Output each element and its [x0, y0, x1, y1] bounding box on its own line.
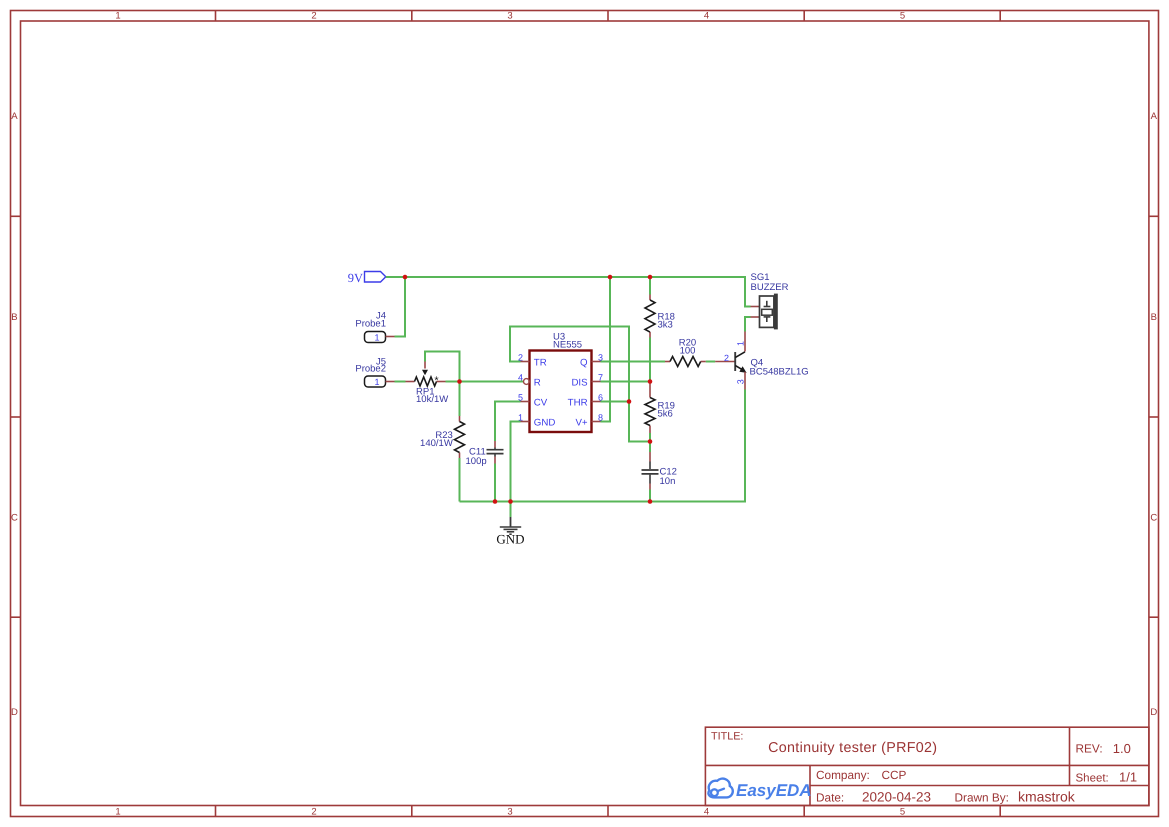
- ground symbol GND: [496, 502, 524, 547]
- wire node to pin4 R: [460, 381, 524, 383]
- resistor R23 140/1W: [420, 416, 464, 458]
- svg-text:D: D: [11, 707, 18, 718]
- wire R19 bottom: [649, 433, 651, 442]
- wire pin1 GND to gnd rail: [511, 422, 521, 502]
- wire pin7 DIS to node: [601, 381, 651, 383]
- svg-text:CV: CV: [534, 397, 548, 408]
- pin 7 DIS: [571, 373, 603, 389]
- svg-text:Company:: Company:: [816, 768, 870, 782]
- svg-text:BC548BZL1G: BC548BZL1G: [750, 366, 809, 377]
- svg-text:3: 3: [507, 807, 512, 818]
- pin 2 TR: [518, 353, 547, 369]
- svg-text:Drawn By:: Drawn By:: [955, 790, 1009, 804]
- potentiometer RP1 10k/1W: [406, 362, 449, 405]
- svg-text:3: 3: [735, 379, 745, 384]
- svg-text:C: C: [1150, 513, 1157, 524]
- svg-text:10k/1W: 10k/1W: [416, 394, 448, 405]
- svg-text:REV:: REV:: [1076, 742, 1103, 756]
- svg-text:3: 3: [507, 11, 512, 22]
- svg-text:5: 5: [900, 11, 905, 22]
- svg-text:EasyEDA: EasyEDA: [736, 781, 812, 800]
- svg-text:C: C: [11, 513, 18, 524]
- svg-text:1: 1: [374, 332, 379, 342]
- svg-text:TITLE:: TITLE:: [711, 731, 743, 743]
- net flag 9V: [348, 271, 386, 285]
- svg-text:B: B: [1151, 312, 1157, 323]
- capacitor C11 100p: [466, 441, 504, 467]
- svg-text:TR: TR: [534, 357, 547, 368]
- wire R23 bottom to gnd rail: [459, 458, 461, 502]
- svg-text:1: 1: [374, 377, 379, 387]
- svg-text:1: 1: [115, 11, 120, 22]
- svg-text:2: 2: [311, 807, 316, 818]
- pin 1 GND: [518, 413, 555, 429]
- svg-text:3: 3: [598, 353, 603, 363]
- wire pin3 Q to R20: [601, 361, 666, 363]
- wire 9V rail top: [386, 277, 751, 307]
- svg-text:NE555: NE555: [553, 340, 582, 351]
- svg-text:B: B: [11, 312, 17, 323]
- svg-text:10n: 10n: [660, 476, 676, 487]
- connector J4 Probe1: [355, 311, 394, 343]
- op-amp U3 NE555: [530, 331, 592, 432]
- resistor R18 3k3: [645, 295, 675, 338]
- svg-text:8: 8: [598, 413, 603, 423]
- buzzer SG1: [751, 272, 789, 329]
- svg-text:GND: GND: [534, 417, 556, 428]
- capacitor C12 10n: [642, 452, 677, 490]
- svg-text:1: 1: [115, 807, 120, 818]
- svg-text:Date:: Date:: [816, 790, 844, 804]
- wire 9V rail to R18: [649, 277, 651, 295]
- svg-text:1: 1: [518, 413, 523, 423]
- svg-text:DIS: DIS: [571, 377, 588, 388]
- svg-text:4: 4: [518, 373, 523, 383]
- svg-text:7: 7: [598, 373, 603, 383]
- pin 4 R: [518, 373, 541, 389]
- svg-text:Probe1: Probe1: [355, 319, 386, 330]
- svg-text:5: 5: [518, 393, 523, 403]
- svg-text:Probe2: Probe2: [355, 364, 386, 375]
- svg-text:2020-04-23: 2020-04-23: [862, 790, 931, 805]
- svg-text:Continuity tester (PRF02): Continuity tester (PRF02): [768, 740, 937, 756]
- resistor R20 100: [665, 337, 706, 366]
- svg-text:3k3: 3k3: [658, 320, 673, 331]
- wire C12 bottom to gnd rail: [649, 490, 651, 502]
- transistor Q4 BC548BZL1G: [715, 332, 808, 390]
- wire R18 bottom to DIS node: [649, 338, 651, 382]
- svg-text:9V: 9V: [348, 271, 363, 285]
- svg-text:D: D: [1150, 707, 1157, 718]
- svg-text:4: 4: [704, 807, 709, 818]
- svg-text:140/1W: 140/1W: [420, 438, 453, 449]
- svg-text:R: R: [534, 377, 541, 388]
- wire pin5 CV to C11: [495, 402, 521, 442]
- wire node to C12: [649, 442, 651, 453]
- svg-text:Q: Q: [580, 357, 588, 368]
- pin 5 CV: [518, 393, 548, 409]
- wire pin8 V+ to 9V rail: [601, 277, 611, 422]
- pin 8 V+: [575, 413, 603, 429]
- wire RP1 right to node: [446, 381, 460, 383]
- pin 6 THR: [568, 393, 603, 409]
- wire node down to R23: [459, 382, 461, 417]
- svg-text:BUZZER: BUZZER: [751, 282, 789, 293]
- svg-text:THR: THR: [568, 397, 588, 408]
- svg-text:1.0: 1.0: [1113, 741, 1131, 756]
- connector J5 Probe2: [355, 356, 394, 387]
- svg-text:GND: GND: [496, 531, 524, 546]
- svg-text:A: A: [11, 111, 18, 122]
- svg-text:*: *: [434, 375, 439, 387]
- svg-text:6: 6: [598, 393, 603, 403]
- wire pin6 THR to node: [601, 401, 630, 403]
- wire Q4 emitter to gnd rail: [744, 390, 746, 441]
- svg-text:1/1: 1/1: [1119, 769, 1137, 784]
- wire C11 bottom to gnd rail: [494, 464, 496, 502]
- svg-text:2: 2: [311, 11, 316, 22]
- svg-text:kmastrok: kmastrok: [1018, 788, 1076, 804]
- wire buzzer bottom to collector: [745, 317, 751, 332]
- svg-text:2: 2: [518, 353, 523, 363]
- svg-text:100: 100: [680, 345, 696, 356]
- svg-text:1: 1: [735, 341, 745, 346]
- wire J4 to 9V rail: [395, 277, 406, 337]
- pin 3 Q: [580, 353, 603, 369]
- wire gnd rail bottom: [460, 390, 746, 502]
- wire pin2 TR loop to THR node and R19 bottom: [510, 327, 650, 442]
- svg-text:Sheet:: Sheet:: [1076, 772, 1109, 784]
- wire RP1 wiper loop: [425, 352, 460, 382]
- svg-text:5: 5: [900, 807, 905, 818]
- svg-text:100p: 100p: [466, 456, 487, 467]
- wire J5 to RP1: [395, 381, 406, 383]
- svg-text:5k6: 5k6: [658, 408, 673, 419]
- wire R20 to Q4 base: [706, 361, 716, 363]
- svg-text:V+: V+: [575, 417, 587, 428]
- resistor R19 5k6: [645, 382, 675, 434]
- junction dots: [403, 275, 653, 504]
- svg-text:CCP: CCP: [882, 768, 907, 782]
- svg-text:2: 2: [724, 353, 729, 363]
- svg-text:4: 4: [704, 11, 709, 22]
- svg-text:A: A: [1151, 111, 1158, 122]
